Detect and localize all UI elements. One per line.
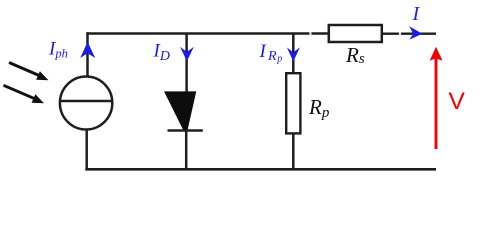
svg-text:V: V [449, 88, 466, 115]
light arrow lower [4, 85, 45, 103]
wire top bus left (node A to Rs) [86, 32, 327, 35]
wire current source bottom stub [85, 130, 88, 170]
wire Rp top [292, 33, 295, 73]
svg-text:I: I [259, 41, 268, 62]
current arrow IRp (blue, down) [287, 47, 300, 61]
wire Rp bottom [292, 134, 295, 169]
svg-text:ID: ID [153, 41, 170, 65]
wire bottom bus [85, 168, 436, 171]
light arrow upper [9, 63, 49, 81]
current arrow I (blue, right) [409, 26, 422, 40]
voltage arrow V (red, up) [430, 47, 443, 149]
wire diode cathode [185, 131, 188, 170]
svg-text:R: R [267, 49, 277, 64]
wire diode anode [185, 33, 188, 93]
wire notch artifact left of Rs [309, 32, 311, 36]
wire notch artifact right of Rs [399, 32, 401, 35]
current source Iph (circle with bar) [60, 77, 112, 130]
diode D (filled triangle) [164, 91, 196, 129]
current arrow Iph (blue, up) [80, 42, 95, 58]
svg-text:p: p [276, 53, 282, 64]
wire from Rs to output terminal [383, 33, 436, 35]
resistor Rs (box) [329, 25, 382, 42]
diode D cathode bar [168, 129, 203, 132]
resistor Rp (box) [286, 73, 300, 133]
svg-text:Rp: Rp [308, 95, 330, 121]
wire current source top stub [86, 32, 89, 76]
current arrow ID (blue, down) [180, 47, 194, 61]
svg-text:Iph: Iph [48, 39, 68, 61]
svg-text:Rs: Rs [345, 43, 365, 67]
svg-text:I: I [412, 3, 421, 25]
